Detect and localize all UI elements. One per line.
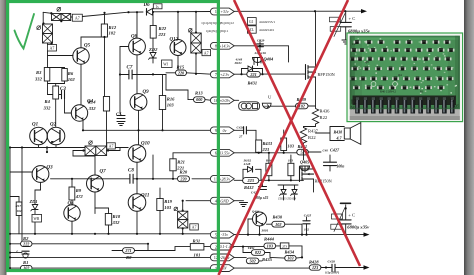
svg-text:R17: R17 <box>16 204 22 208</box>
wire row pin9 right <box>234 129 243 131</box>
svg-text:+0.03v: +0.03v <box>219 99 230 103</box>
svg-text:1: 1 <box>215 9 217 14</box>
svg-text:ZD1: ZD1 <box>29 199 38 204</box>
svg-text:R1: R1 <box>23 260 28 265</box>
connector pin 2 -0.14v <box>210 243 234 250</box>
svg-text:R22: R22 <box>320 115 328 120</box>
connector pin 11 +28.3v <box>210 175 234 182</box>
svg-text:13.55v: 13.55v <box>219 151 230 155</box>
red cross line 2 <box>219 0 349 275</box>
svg-text:502: 502 <box>249 259 255 264</box>
resistor R16 <box>159 96 165 110</box>
svg-text:C40: C40 <box>323 148 329 152</box>
legend box ZL <box>247 26 256 33</box>
svg-text:6800µ x35v: 6800µ x35v <box>348 28 371 33</box>
svg-text:R19: R19 <box>164 199 172 204</box>
fuse F4 rating box A7 <box>107 143 116 149</box>
svg-text:R2: R2 <box>23 236 29 241</box>
resistor R22a <box>150 26 156 39</box>
svg-text:C2: C2 <box>352 42 356 46</box>
svg-text:271: 271 <box>281 244 287 248</box>
value box WJ <box>162 60 173 68</box>
svg-text:C426: C426 <box>237 125 244 129</box>
wire row pin11 right <box>234 179 242 181</box>
svg-text:223: 223 <box>158 32 167 37</box>
fuse F4 pair mid <box>85 146 96 156</box>
wire row pin7 right <box>234 73 247 75</box>
connector pin 7 +2.3v <box>210 71 234 78</box>
resistor R19 <box>157 199 163 211</box>
wire row pin11 <box>51 178 130 180</box>
fuse F1 rating box A7 <box>72 14 82 21</box>
svg-text:Q405: Q405 <box>300 160 309 165</box>
svg-text:-0.1-1.4: -0.1-1.4 <box>218 245 230 249</box>
svg-text:R21: R21 <box>177 160 185 165</box>
wire Q1 Q2 join <box>39 147 57 149</box>
svg-text:mmbt555/1: mmbt555/1 <box>260 20 276 24</box>
svg-text:WJ: WJ <box>163 62 168 66</box>
svg-text:A7: A7 <box>204 50 209 55</box>
svg-text:13: 13 <box>450 99 456 104</box>
svg-text:R16: R16 <box>167 97 175 102</box>
svg-text:103: 103 <box>287 256 293 261</box>
resistor R21 <box>170 159 176 171</box>
wire row pin6 right <box>234 152 297 154</box>
resistor R8 <box>123 248 135 254</box>
resistor R447 box <box>280 243 289 249</box>
svg-text:D6: D6 <box>143 3 151 8</box>
svg-text:R12: R12 <box>109 25 117 30</box>
svg-text:220: 220 <box>177 70 185 75</box>
resistor R18 <box>105 214 111 226</box>
svg-text:R430: R430 <box>273 215 283 220</box>
svg-text:332: 332 <box>34 77 43 82</box>
svg-text:R18: R18 <box>113 214 121 219</box>
svg-text:332: 332 <box>43 105 52 110</box>
fuse F2 rating box A7 <box>48 45 57 52</box>
svg-text:Q5: Q5 <box>84 44 91 49</box>
wire row pin4 <box>186 200 211 202</box>
svg-text:+31v: +31v <box>220 10 229 14</box>
resistor R445 <box>266 163 272 175</box>
wire fuse to R3 <box>47 44 49 45</box>
svg-text:R9: R9 <box>76 188 82 193</box>
svg-text:R15: R15 <box>177 65 185 70</box>
PCB board <box>350 36 460 110</box>
arrow output top <box>361 9 367 13</box>
svg-text:332: 332 <box>112 220 121 225</box>
wire R436 to R437 <box>315 124 317 127</box>
connector pin 4 GND <box>210 197 234 204</box>
svg-text:472: 472 <box>75 194 84 199</box>
resistor R9 <box>69 187 75 200</box>
svg-text:103: 103 <box>267 244 273 249</box>
PCB solder glints <box>386 46 388 47</box>
wire row pin10 right <box>234 99 239 101</box>
svg-text:R3: R3 <box>36 70 42 75</box>
wire row pin3 right <box>234 267 309 269</box>
svg-text:+28.3v: +28.3v <box>219 177 230 181</box>
resistor R437 zigzag <box>300 128 306 144</box>
connector pin 5 -31v <box>210 231 234 238</box>
resistor R12 <box>101 24 107 37</box>
svg-text:A7: A7 <box>109 144 114 149</box>
resistor R17 <box>16 202 22 216</box>
svg-text:C425: C425 <box>304 213 312 217</box>
wire row pin12 <box>10 256 211 258</box>
svg-text:0v: 0v <box>223 129 227 133</box>
svg-text:223: 223 <box>247 178 254 183</box>
PCB silkscreen markings <box>371 82 376 87</box>
svg-text:R428: R428 <box>309 259 319 264</box>
resistor R6 <box>62 69 68 82</box>
svg-text:C429: C429 <box>257 38 265 42</box>
svg-text:100n: 100n <box>337 164 345 168</box>
fuse box 1s <box>153 4 162 9</box>
svg-text:RFP150N: RFP150N <box>318 72 335 77</box>
value box WB <box>32 214 42 222</box>
page left scan edge <box>0 0 7 275</box>
resistor R4 <box>53 86 59 99</box>
svg-text:4148: 4148 <box>235 57 243 61</box>
fuse F5 rating box A7 <box>190 224 199 230</box>
resistor R431 <box>247 71 260 77</box>
svg-text:A7: A7 <box>50 45 55 50</box>
connector pin 10 +0.03v <box>210 97 234 104</box>
svg-text:R438: R438 <box>334 129 343 134</box>
svg-text:104: 104 <box>17 209 22 213</box>
svg-text:R444: R444 <box>264 236 275 241</box>
svg-text:Q7: Q7 <box>100 170 107 175</box>
svg-text:R6: R6 <box>68 71 74 76</box>
svg-text:R14: R14 <box>88 100 96 105</box>
svg-text:A7: A7 <box>75 15 80 20</box>
svg-text:R31: R31 <box>193 238 201 243</box>
svg-text:822: 822 <box>255 250 261 255</box>
svg-text:103: 103 <box>167 103 175 108</box>
svg-text:R1: R1 <box>420 90 424 94</box>
PCB pin header <box>353 96 457 106</box>
svg-text:GND: GND <box>220 199 228 203</box>
svg-text:27: 27 <box>238 135 243 139</box>
wire row -31v right <box>234 234 365 236</box>
mosfet Q402 IRFP150N lower <box>300 167 314 182</box>
wire top rail <box>83 12 129 16</box>
svg-text:102: 102 <box>275 222 281 227</box>
svg-text:222: 222 <box>22 241 29 246</box>
svg-text:101: 101 <box>194 253 201 258</box>
svg-text:RFP150N: RFP150N <box>315 179 332 184</box>
svg-text:+14.3v: +14.3v <box>219 44 230 48</box>
svg-text:102: 102 <box>109 31 117 36</box>
svg-text:WB: WB <box>34 217 40 221</box>
svg-text:102: 102 <box>68 77 76 82</box>
svg-text:R13: R13 <box>195 91 203 96</box>
svg-text:220: 220 <box>179 176 187 181</box>
connector pin 6 -13.5v <box>210 149 234 156</box>
arrow output bottom <box>364 265 370 269</box>
wire row pin8 right <box>234 45 288 47</box>
PCB photo frame <box>347 33 463 122</box>
zener ZD104 <box>292 190 297 195</box>
fuse F1 pair top-left <box>43 12 51 13</box>
svg-text:R22: R22 <box>308 135 316 140</box>
connector pin 3 IN <box>210 265 234 272</box>
svg-text:R40 CON4 2: R40 CON4 2 <box>380 90 396 94</box>
shunt reg TL431 <box>262 103 271 108</box>
svg-text:R434: R434 <box>285 250 295 255</box>
connector pin 12 -26.5v <box>210 254 234 261</box>
svg-text:4.7: 4.7 <box>336 135 343 140</box>
svg-text:R436: R436 <box>320 109 331 114</box>
fuse F2 pair vertical <box>42 12 44 25</box>
svg-text:R4: R4 <box>45 99 51 104</box>
PCB dark vignette edges <box>351 37 460 109</box>
svg-text:Q8: Q8 <box>365 60 369 64</box>
wire mid rail <box>10 147 128 149</box>
svg-text:Q9: Q9 <box>143 90 150 95</box>
svg-text:103: 103 <box>288 144 294 149</box>
resistor R442 <box>281 138 287 151</box>
PCB smd component rows <box>354 41 361 44</box>
svg-text:+2.3v: +2.3v <box>220 73 229 77</box>
svg-text:0.5µ 250(*): 0.5µ 250(*) <box>325 270 339 274</box>
green checkmark <box>15 14 35 49</box>
svg-text:R433: R433 <box>263 141 273 146</box>
svg-text:Q10: Q10 <box>141 142 150 147</box>
zener ZD103 <box>281 190 286 195</box>
PCB bottom gray strip <box>350 109 460 120</box>
connector pin 8 +14.3v <box>210 42 234 49</box>
svg-text:R22: R22 <box>159 26 167 31</box>
svg-text:221: 221 <box>249 72 256 77</box>
svg-text:4148: 4148 <box>243 162 251 166</box>
svg-text:G1: G1 <box>249 20 254 24</box>
fuse F3 pair vertical right <box>191 33 201 43</box>
svg-text:+ C: + C <box>348 212 355 217</box>
svg-text:R20: R20 <box>180 170 188 175</box>
green annotation box <box>8 2 219 271</box>
resistor R14 <box>103 97 109 112</box>
svg-text:2: 2 <box>215 244 217 249</box>
fuse F5 pair bottom <box>178 211 188 219</box>
svg-text:C428: C428 <box>328 259 336 263</box>
svg-text:+ C: + C <box>349 16 356 21</box>
wire bottom rail -31v <box>10 233 211 235</box>
svg-text:332: 332 <box>88 106 97 111</box>
wire top rail right <box>234 10 345 12</box>
svg-text:ZD103 ZD104: ZD103 ZD104 <box>278 197 296 201</box>
red cross line 1 <box>234 0 360 266</box>
svg-text:3001: 3001 <box>261 228 269 232</box>
svg-text:223: 223 <box>262 147 270 152</box>
svg-text:Q1: Q1 <box>32 123 38 128</box>
svg-text:000: 000 <box>196 97 203 102</box>
big capacitor C top 6800u <box>340 21 351 23</box>
svg-text:mmbt5401: mmbt5401 <box>260 28 275 32</box>
svg-text:103: 103 <box>164 205 172 210</box>
big capacitor C bottom 6800u <box>345 205 347 220</box>
arrow output mid <box>364 232 370 236</box>
svg-text:ZD2: ZD2 <box>148 47 158 52</box>
ground under C top <box>342 39 350 41</box>
svg-text:C8: C8 <box>128 169 134 174</box>
ground near pin4 <box>234 200 243 202</box>
connector pin 9 0v <box>210 127 234 134</box>
svg-text:6800µ x35v: 6800µ x35v <box>347 225 370 230</box>
svg-text:-31v: -31v <box>221 233 228 237</box>
ground under C5 <box>117 121 125 123</box>
mosfet Q401 IRFP150N <box>306 65 316 80</box>
wire row pin9 <box>83 129 211 131</box>
svg-text:C427: C427 <box>330 147 340 152</box>
svg-text:R432: R432 <box>244 185 254 190</box>
speaker SP <box>344 128 350 139</box>
resistor R3 <box>44 68 50 82</box>
resistor R436 zigzag <box>312 109 318 125</box>
legend box G1 <box>247 18 256 25</box>
page right scan edge <box>464 0 474 275</box>
resistor R432 <box>243 178 259 184</box>
resistor R433 <box>256 140 262 152</box>
fuse F3 rating box A7 <box>202 50 211 56</box>
svg-text:R431: R431 <box>248 80 258 85</box>
svg-text:123: 123 <box>312 265 318 270</box>
resistor R446 <box>288 163 294 175</box>
svg-text:A7: A7 <box>192 225 197 230</box>
svg-text:271: 271 <box>124 248 131 253</box>
svg-text:Q4: Q4 <box>398 73 402 77</box>
connector pin 1 +31v <box>210 8 234 15</box>
svg-text:Q404: Q404 <box>264 57 275 62</box>
